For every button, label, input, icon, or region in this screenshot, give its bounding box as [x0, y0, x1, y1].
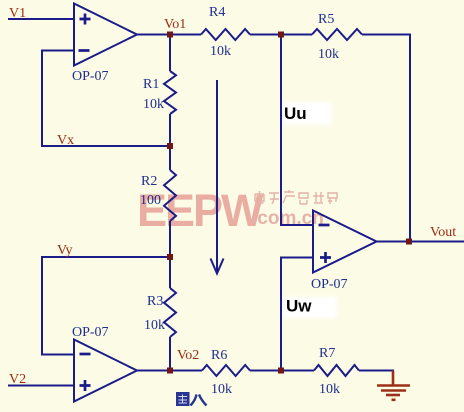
svg-text:OP-07: OP-07 [72, 325, 109, 340]
svg-text:10k: 10k [210, 44, 231, 59]
svg-text:R1: R1 [143, 77, 159, 92]
svg-text:10k: 10k [143, 97, 164, 112]
svg-text:Vo2: Vo2 [177, 348, 199, 363]
svg-text:OP-07: OP-07 [311, 277, 348, 292]
svg-text:OP-07: OP-07 [72, 69, 109, 84]
svg-text:Vy: Vy [57, 243, 73, 258]
svg-text:10k: 10k [319, 382, 340, 397]
svg-text:R6: R6 [211, 348, 227, 363]
svg-text:V1: V1 [9, 6, 26, 21]
svg-text:R3: R3 [147, 294, 163, 309]
svg-text:Uw: Uw [286, 297, 312, 316]
svg-text:Vo1: Vo1 [164, 17, 186, 32]
svg-text:V2: V2 [9, 372, 26, 387]
svg-text:Uu: Uu [284, 104, 307, 123]
svg-text:R7: R7 [319, 346, 335, 361]
svg-text:100: 100 [140, 193, 161, 208]
svg-text:10k: 10k [144, 318, 165, 333]
svg-text:10k: 10k [211, 382, 232, 397]
svg-text:10k: 10k [318, 47, 339, 62]
svg-text:Vx: Vx [57, 133, 74, 148]
svg-text:Vout: Vout [430, 225, 456, 240]
svg-text:R4: R4 [209, 5, 225, 20]
svg-text:R2: R2 [141, 174, 157, 189]
svg-text:R5: R5 [318, 12, 334, 27]
